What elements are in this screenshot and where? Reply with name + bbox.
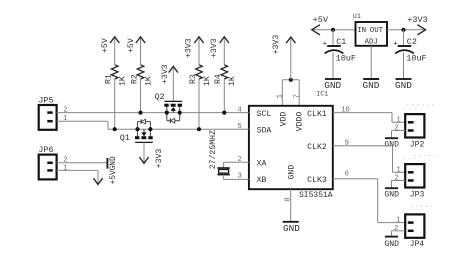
- svg-text:R3: R3: [189, 74, 198, 84]
- svg-text:GND: GND: [287, 165, 296, 180]
- pin number 4: [237, 107, 241, 115]
- svg-text:CLK3: CLK3: [307, 176, 327, 185]
- wire JP5 pin1 to SDA: [57, 121, 108, 129]
- resistor R3: [189, 65, 212, 86]
- svg-text:GND: GND: [283, 223, 300, 234]
- pin number 1: [277, 94, 285, 98]
- node R3/SDA: [197, 127, 201, 131]
- svg-text:JP3: JP3: [410, 190, 425, 199]
- svg-text:1K: 1K: [203, 76, 212, 86]
- node Q2 right/SCL: [178, 111, 182, 115]
- pin label JP6-1: [63, 165, 67, 173]
- decor faint marks JP2: [403, 105, 437, 108]
- pin number 2: [237, 156, 241, 164]
- svg-text:2: 2: [394, 125, 398, 133]
- svg-text:C1: C1: [336, 37, 346, 47]
- capacitor C1: [323, 30, 356, 79]
- svg-text:+5V: +5V: [313, 15, 329, 25]
- node rail/C2: [401, 28, 405, 32]
- node VDD junction: [289, 78, 293, 82]
- node R2/SCL: [138, 111, 142, 115]
- IC U1 top pin wires: [282, 80, 299, 106]
- svg-text:R1: R1: [105, 74, 114, 84]
- resistor R2: [130, 65, 153, 86]
- pin label JP3-1: [396, 166, 400, 174]
- svg-text:CLK1: CLK1: [307, 110, 327, 119]
- node rail/C1: [331, 28, 335, 32]
- svg-text:ADJ: ADJ: [365, 39, 378, 47]
- svg-text:1K: 1K: [119, 76, 128, 86]
- pin label JP6-2: [63, 156, 67, 164]
- connector JP5: [38, 96, 56, 130]
- ground (ADJ): [363, 79, 380, 91]
- power arrow +5V (R2): [127, 37, 145, 65]
- connector JP3: [405, 164, 424, 199]
- svg-text:Q1: Q1: [120, 133, 130, 143]
- pin label JP5-1: [63, 115, 67, 123]
- svg-text:VDDO: VDDO: [295, 112, 304, 132]
- ground (JP2): [384, 138, 399, 149]
- svg-text:JP6: JP6: [38, 145, 53, 155]
- decor faint marks JP3: [403, 155, 437, 158]
- svg-text:OUT: OUT: [370, 27, 384, 35]
- pin VDDO name: [295, 112, 304, 132]
- svg-text:GND: GND: [384, 190, 399, 199]
- svg-text:2: 2: [394, 175, 398, 183]
- wire R1 to SDA: [114, 79, 116, 129]
- svg-text:+5V: +5V: [110, 170, 118, 184]
- svg-text:C2: C2: [407, 37, 417, 47]
- svg-text:XB: XB: [257, 176, 267, 185]
- svg-text:1: 1: [396, 166, 400, 174]
- wire CLK1 to JP2: [333, 113, 405, 123]
- svg-text:JP2: JP2: [410, 140, 425, 149]
- connector JP4: [405, 214, 424, 248]
- svg-text:R2: R2: [130, 74, 139, 84]
- svg-text:10: 10: [341, 106, 350, 114]
- decor faint marks JP4: [403, 206, 433, 209]
- pin number 10: [341, 106, 350, 114]
- svg-text:GND: GND: [384, 140, 399, 149]
- svg-text:1: 1: [396, 116, 400, 124]
- wire SCL bus: [57, 112, 249, 114]
- wire JP6 pin2: [57, 162, 108, 164]
- wire JP2 pin2 to gnd: [392, 131, 406, 139]
- ground (JP6): [107, 156, 117, 170]
- wire IC pin 8: [290, 189, 292, 222]
- svg-text:4: 4: [237, 107, 241, 115]
- ground (JP3): [384, 188, 399, 199]
- power arrow +3V3 (Q1 gate): [139, 142, 164, 168]
- pin label JP3-2: [394, 175, 398, 183]
- svg-text:1: 1: [63, 115, 67, 123]
- svg-text:GND: GND: [395, 80, 412, 91]
- crystal Q3 27/25MHZ: [208, 130, 230, 179]
- pin number 5: [237, 123, 241, 131]
- capacitor C2: [393, 30, 426, 79]
- svg-text:+5V: +5V: [127, 38, 136, 53]
- power arrow +3V3 (R3): [185, 37, 204, 65]
- node R1/SDA: [113, 127, 117, 131]
- connector JP6: [38, 145, 56, 179]
- svg-text:1K: 1K: [144, 76, 153, 86]
- pin VDD name: [279, 112, 288, 127]
- pin label JP5-2: [63, 107, 67, 115]
- wire JP3 pin2 to gnd: [392, 181, 406, 189]
- wire JP4 pin2 to gnd: [392, 231, 406, 237]
- node Q1 right/SDA: [148, 127, 152, 131]
- power arrow +5V (JP6): [93, 170, 118, 184]
- op-amp IC1 box: [249, 91, 333, 201]
- svg-text:+5V: +5V: [101, 38, 110, 53]
- svg-text:8: 8: [285, 197, 293, 201]
- pin number 7: [293, 94, 301, 98]
- power arrow +3V3 (Q2 gate): [161, 64, 178, 101]
- svg-text:IC1: IC1: [316, 91, 328, 99]
- transistor Q1: [120, 119, 153, 143]
- wire CLK2 to JP3: [333, 146, 405, 173]
- pin SCL name: [257, 110, 272, 119]
- wire OUT rail: [387, 29, 426, 31]
- power arrow +5V (R1): [101, 37, 119, 65]
- svg-text:GND: GND: [110, 156, 118, 170]
- svg-text:1K: 1K: [228, 76, 237, 86]
- svg-text:+3V3: +3V3: [185, 38, 194, 58]
- ground (JP4): [384, 237, 399, 249]
- power arrow +3V3 (IC supply): [272, 35, 295, 80]
- pin XB name: [257, 176, 267, 185]
- pin number 3: [237, 172, 241, 180]
- voltage regulator U1: [353, 13, 387, 46]
- svg-text:7: 7: [293, 94, 301, 98]
- svg-text:27/25MHZ: 27/25MHZ: [208, 130, 218, 169]
- svg-text:5: 5: [237, 123, 241, 131]
- svg-text:1: 1: [396, 217, 400, 225]
- pin GND name: [287, 165, 296, 180]
- wire R4 to SCL: [223, 79, 225, 113]
- svg-text:IN: IN: [357, 27, 366, 35]
- connector JP2: [405, 114, 424, 149]
- pin label JP2-1: [396, 116, 400, 124]
- wire XA: [224, 161, 249, 163]
- power arrow +3V3 (R4): [210, 37, 229, 65]
- wire CLK3 to JP4: [333, 179, 405, 223]
- pin CLK2 name: [307, 143, 327, 152]
- svg-text:2: 2: [394, 225, 398, 233]
- svg-text:VDD: VDD: [279, 112, 288, 127]
- pin CLK1 name: [307, 110, 327, 119]
- wire ADJ: [370, 46, 372, 79]
- node R4/SCL: [222, 111, 226, 115]
- pin label JP4-1: [396, 217, 400, 225]
- pin XA name: [257, 159, 267, 168]
- svg-text:XA: XA: [257, 159, 267, 168]
- svg-text:GND: GND: [363, 80, 380, 91]
- pin label JP4-2: [394, 225, 398, 233]
- svg-text:SI5351A: SI5351A: [299, 191, 333, 200]
- svg-text:CLK2: CLK2: [307, 143, 327, 152]
- svg-text:SCL: SCL: [257, 110, 272, 119]
- transistor Q2: [155, 92, 183, 123]
- ground (C2): [395, 79, 412, 91]
- node Q2 left/SCL: [165, 111, 169, 115]
- svg-text:1: 1: [63, 165, 67, 173]
- svg-text:Q2: Q2: [155, 92, 165, 102]
- svg-text:2: 2: [237, 156, 241, 164]
- power arrow +3V3 (right rail): [407, 15, 428, 35]
- wire XB: [224, 178, 249, 180]
- svg-text:R4: R4: [214, 74, 223, 84]
- wire R2 to SCL: [140, 79, 142, 113]
- power arrow +5V (left rail): [312, 15, 356, 35]
- svg-text:+3V3: +3V3: [210, 38, 219, 58]
- resistor R1: [105, 65, 128, 86]
- svg-text:6: 6: [345, 170, 349, 178]
- svg-text:U1: U1: [353, 13, 361, 21]
- wire SDA bus: [108, 128, 249, 130]
- svg-text:1: 1: [277, 94, 285, 98]
- pin number 8: [285, 197, 293, 201]
- pin label JP2-2: [394, 125, 398, 133]
- svg-text:+: +: [393, 41, 397, 49]
- pin number 9: [345, 139, 349, 147]
- svg-text:GND: GND: [384, 240, 399, 249]
- node Q1 left/SDA: [135, 127, 139, 131]
- wire JP6 pin1: [57, 169, 98, 171]
- svg-text:JP4: JP4: [410, 240, 425, 249]
- ground (C1): [324, 79, 341, 91]
- resistor R4: [214, 65, 237, 86]
- wire R3 to SDA: [198, 79, 200, 129]
- pin SDA name: [257, 126, 272, 135]
- pin CLK3 name: [307, 176, 327, 185]
- svg-text:GND: GND: [324, 80, 341, 91]
- svg-text:+3V3: +3V3: [407, 15, 428, 25]
- svg-text:+3V3: +3V3: [272, 35, 281, 55]
- svg-text:+3V3: +3V3: [155, 149, 164, 169]
- svg-text:+3V3: +3V3: [161, 64, 170, 84]
- svg-text:SDA: SDA: [257, 126, 272, 135]
- svg-text:JP5: JP5: [38, 96, 53, 106]
- ground (IC1 pin 8): [283, 222, 301, 234]
- svg-text:10uF: 10uF: [336, 54, 356, 64]
- svg-text:10uF: 10uF: [406, 54, 426, 64]
- pin number 6: [345, 170, 349, 178]
- svg-text:2: 2: [63, 107, 67, 115]
- svg-text:+: +: [323, 41, 327, 49]
